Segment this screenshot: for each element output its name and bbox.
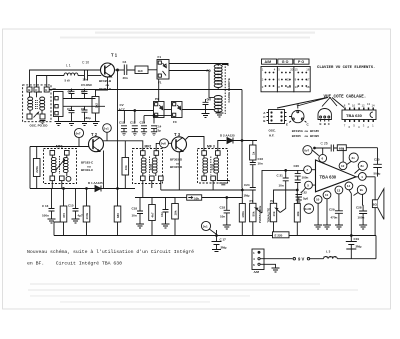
svg-text:C 17: C 17 [220,238,227,242]
svg-text:5 t0: 5 t0 [65,79,71,83]
svg-text:VUE COTE CABLAGE.: VUE COTE CABLAGE. [324,95,367,99]
svg-text:10n: 10n [220,215,225,219]
MF1 tuning arrow [56,159,65,170]
svg-text:C 10: C 10 [82,61,89,65]
MF3 contact B [216,151,221,156]
svg-text:9v: 9v [360,188,364,192]
wire AGC caps rail B [144,116,172,124]
ground [72,219,80,223]
wire D1 AGC bus [30,188,135,190]
svg-text:TONALITE: TONALITE [266,208,270,223]
transistor T2 [89,137,104,152]
svg-text:100n: 100n [42,214,49,218]
transistor T3 [172,137,187,152]
pin 14 [345,182,353,190]
svg-text:18: 18 [306,85,310,89]
MF2 contact B [154,151,159,156]
MF1 contact A [50,151,55,156]
svg-text:C25: C25 [374,158,380,162]
svg-text:2Mμ: 2Mμ [221,246,227,250]
svg-text:2v: 2v [352,156,356,160]
svg-text:50k: 50k [251,211,255,216]
test point 1v1 [103,124,112,133]
IF transformer F1 [157,60,169,80]
svg-text:C29: C29 [329,208,335,212]
wire L1 to C10 [78,75,84,77]
ferrite bead E220 [273,232,290,238]
svg-text:C5: C5 [68,90,72,94]
potentiometer P1 volume [242,189,253,191]
resistor R7 470 [63,189,65,236]
ground [335,225,343,229]
wire 1v1 lead [106,132,108,141]
contact D [40,114,45,119]
loudspeaker HP [374,177,376,236]
capacitor C17 [216,235,218,237]
ground [202,110,210,118]
oscillator coil La [28,97,33,101]
pin 7 [304,166,312,174]
svg-text:ou: ou [305,134,309,138]
capacitor C13b 100n [49,189,55,220]
svg-text:D 1 AA125: D 1 AA125 [88,181,103,185]
svg-text:BF315-D: BF315-D [170,165,183,169]
svg-text:OSC. PO.GO: OSC. PO.GO [30,123,49,127]
wire AGC caps rail A [118,111,154,124]
svg-text:1k: 1k [251,151,255,155]
ground [68,122,76,126]
wire T2 collector [103,141,143,189]
svg-text:180p: 180p [84,116,91,120]
wire switch to ground [260,264,275,268]
test point 2v [349,153,358,162]
resistor R1 emitter [96,77,108,97]
junction [241,140,243,142]
wire F2-F3 [164,109,172,111]
svg-text:100n: 100n [358,216,365,220]
svg-text:C6: C6 [81,90,85,94]
wire bus right corner [375,236,377,259]
ferrite core [224,64,226,115]
test point 0v45 [304,204,314,214]
svg-text:0v45: 0v45 [305,207,312,211]
keyboard pin numbers [262,68,310,89]
test point 3v1 [201,221,210,230]
ground [272,268,280,272]
capacitor C18 [137,198,143,225]
junction [63,188,65,190]
MF3 contact D [211,176,216,181]
keyboard contact block GO [277,67,294,92]
svg-text:A/M: A/M [265,60,272,64]
P2 wiper [276,208,281,212]
wire volume wiper to pin7 [262,170,304,213]
MF2 contact E [159,176,164,181]
svg-text:G0: G0 [207,98,212,102]
svg-text:E: E [320,122,322,126]
package BF185 flat [318,109,331,120]
svg-text:10: 10 [352,104,356,108]
svg-text:C 26: C 26 [321,142,328,146]
resistor R9 680 [117,188,119,190]
wire T3 collector [179,137,204,191]
MF2 contact C [141,176,146,181]
svg-text:16: 16 [306,68,310,72]
svg-text:21: 21 [287,78,291,82]
capacitor C9 [203,99,209,110]
svg-text:C24: C24 [244,183,250,187]
svg-text:F0: F0 [173,120,177,124]
ground [48,219,56,223]
wire keyboard drop to D2 junction [241,90,243,189]
svg-text:D 2 AA125: D 2 AA125 [220,134,235,138]
svg-text:110: 110 [287,85,292,89]
svg-text:40n: 40n [123,76,128,80]
svg-text:4k7: 4k7 [151,212,155,217]
capacitor C12 [132,126,138,136]
ground [162,224,170,228]
svg-text:2Mμ: 2Mμ [356,245,362,249]
svg-text:BF319-C: BF319-C [81,168,94,172]
oscillator coil Lb [40,97,45,101]
wire F3 to GO coil [182,109,214,112]
svg-text:10n: 10n [160,212,164,217]
svg-text:12: 12 [341,164,345,168]
MF2 primary coil [141,158,146,161]
capacitor C19 [350,235,352,237]
pin 1 output [358,173,366,181]
MF2 contact D [150,176,155,181]
MF3 contact A [202,151,207,156]
trimmer C5 [69,89,75,99]
svg-text:100k: 100k [241,211,245,218]
svg-text:C18: C18 [132,207,138,211]
wire MF3 D contact drop [212,181,214,190]
svg-text:12: 12 [362,104,366,108]
pin 11 [323,191,331,199]
package BF195A can [292,110,304,122]
battery 9V terminals [293,258,295,260]
svg-text:L 1: L 1 [66,64,71,68]
svg-text:23p: 23p [156,129,161,133]
MF1 core [59,156,61,174]
svg-text:9 V: 9 V [298,257,304,262]
wire volume feed [161,189,243,191]
keyboard key A/M [262,59,277,64]
capacitor C15 [73,189,79,220]
MF1 contact C [50,176,55,181]
svg-text:E: E [45,88,47,92]
capacitor C14 [151,126,157,136]
wire switch to 9V [260,258,292,260]
svg-text:H.F.: H.F. [269,133,275,137]
svg-text:BF195A: BF195A [292,129,304,133]
contact C [34,87,39,92]
oscillator block U [54,92,64,117]
wire bus y88.5 [47,90,242,93]
capacitor C24 [250,188,256,204]
svg-text:14: 14 [295,85,299,89]
MF3 contact C [202,176,207,181]
wire OSC square to y75 [46,76,48,88]
svg-text:C18: C18 [220,206,226,210]
pin 5 [305,181,313,189]
svg-text:500μ: 500μ [374,172,381,176]
svg-text:C 22: C 22 [301,191,308,195]
svg-text:C20: C20 [294,164,300,168]
switch arrow [34,112,39,117]
svg-text:100n: 100n [302,176,309,180]
junction [86,188,88,190]
wire block pins [59,99,106,122]
resistor R4 220k [36,147,38,189]
svg-text:A/M: A/M [254,270,260,274]
oscillator module dashed box [23,85,51,122]
test point 0v6 [160,139,169,148]
ground [223,225,231,229]
ground [323,225,331,229]
svg-text:10k: 10k [124,165,128,170]
svg-text:T 1: T 1 [111,53,118,58]
junction [117,69,119,71]
svg-text:0S: 0S [53,87,57,91]
pin 12 [342,148,344,162]
diode D2 AA125 [227,138,233,144]
svg-text:MF 3: MF 3 [207,145,215,149]
svg-text:L 3: L 3 [326,250,331,254]
svg-text:11: 11 [358,102,361,106]
pin 10 [314,196,322,204]
svg-text:F1: F1 [158,55,162,59]
svg-text:E: E [286,123,288,127]
svg-text:4μ7: 4μ7 [78,214,84,218]
wire MF1 to D1 bus [52,181,62,189]
wire MF2 to 0v6 [156,143,159,150]
main ground bus [54,235,376,237]
svg-text:C4: C4 [123,60,127,64]
svg-text:220k: 220k [35,166,39,173]
contact B [27,87,32,92]
svg-text:13: 13 [337,188,341,192]
wire T1 collector out [115,69,125,71]
contact E [44,87,49,92]
svg-text:3v1: 3v1 [203,224,208,228]
svg-text:11: 11 [325,193,329,197]
svg-text:P0: P0 [207,69,211,73]
svg-text:10: 10 [316,198,320,202]
svg-text:E 220: E 220 [275,234,283,238]
svg-text:P0: P0 [155,97,159,101]
svg-text:PUISSANCE: PUISSANCE [258,206,262,224]
keyboard contact block A/M [261,67,277,92]
svg-text:1k0: 1k0 [138,69,143,73]
resistor R15 680 [337,145,346,151]
svg-text:100k: 100k [85,212,89,219]
resistor R6 1k [252,141,254,146]
wire AGC vertical lower [117,111,119,189]
package OSC HF [269,110,285,124]
svg-text:C7: C7 [67,107,71,111]
svg-text:BF395: BF395 [310,134,319,138]
wire MF3 top to D2 [218,141,227,151]
resistor R12 10k horizontal [175,197,187,199]
capacitor C11 [121,126,127,136]
ground [55,122,63,126]
test point 8v [358,161,367,170]
capacitor C6 [82,89,88,99]
wire top supply to T1 [30,70,101,87]
transformer MF3 dashed box [198,149,228,184]
svg-text:Nouveau schéma, suite à l'util: Nouveau schéma, suite à l'utilisation d'… [27,249,194,255]
svg-text:470: 470 [62,213,66,218]
svg-text:CV.OSC: CV.OSC [81,83,93,87]
op-amp U1 TBA630 [316,160,357,192]
wire C17 top [216,230,218,236]
P1 wiper [255,208,262,213]
resistor R14 [296,190,298,236]
svg-text:C13: C13 [140,121,146,125]
svg-text:8Ω: 8Ω [373,202,378,206]
capacitor C4 [124,65,135,76]
MF2 core [149,157,151,175]
test point 0v7 [74,128,83,137]
resistor R8 100k [86,189,88,236]
test point 9v [357,185,366,194]
ground [359,225,367,229]
svg-text:680: 680 [116,213,120,218]
capacitor C13 [141,126,147,136]
ground [81,122,89,126]
wire left rail [29,147,31,189]
MF3 core [210,157,212,175]
svg-text:BF305: BF305 [292,134,301,138]
svg-text:C8: C8 [81,107,85,111]
ground [136,224,144,228]
test point 0v7b [303,146,312,155]
MF2 contact A [141,151,146,156]
svg-text:1Mμ: 1Mμ [244,194,250,198]
MF1 contact E [66,176,71,181]
ground bus osc [59,121,96,123]
svg-text:C11: C11 [119,121,125,125]
pin 6 [319,154,327,162]
svg-text:T 2: T 2 [91,132,98,137]
svg-text:8v: 8v [361,164,365,168]
MF3 primary coil [203,158,208,161]
MF1 contact D [60,176,65,181]
svg-text:OSC.: OSC. [269,129,277,133]
transformer MF1 dashed box [44,149,77,184]
svg-text:3035: 3035 [149,163,153,170]
ground [216,113,224,117]
svg-text:P O: P O [298,60,304,64]
svg-text:14: 14 [347,184,351,188]
svg-text:C19: C19 [354,237,360,241]
svg-text:MF1: MF1 [56,145,63,149]
svg-text:0v7: 0v7 [304,149,309,153]
capacitor C10 [85,71,88,81]
svg-text:MF2: MF2 [145,145,152,149]
wire F1 to PO coil [169,64,228,67]
svg-text:en BF. Circuit Intégré TBA: en BF. Circuit Intégré TBA 630 [27,260,122,266]
MF3 secondary coil [214,158,219,161]
resistor R5 10k [124,141,126,189]
svg-text:2k2: 2k2 [94,103,98,108]
wire MF2 down [143,181,161,198]
capacitor C18b [226,197,228,199]
transformer MF2 dashed box [133,149,163,184]
pin 13 [335,186,343,194]
switch A/M [252,249,264,270]
svg-text:BF185: BF185 [310,129,319,133]
svg-text:C28: C28 [356,206,362,210]
svg-text:10n: 10n [258,162,263,166]
svg-text:5μ0: 5μ0 [303,197,309,201]
resistor R2 [135,66,148,74]
keyboard key PO [294,59,309,64]
choke L3 [310,258,324,260]
MF1 primary coil [51,157,56,160]
wire base feed via L1 [37,76,65,88]
svg-text:T 3: T 3 [174,132,181,137]
wire F1 down to F2 [158,79,160,102]
IC package TBA 630 DIP [342,110,376,120]
wire F1 lower to PO coil [169,71,214,98]
resistor R13 [241,188,243,236]
svg-text:18k: 18k [296,211,300,216]
capacitor C8 [82,106,88,121]
wire 0v6 to T3 [169,142,172,144]
svg-text:C12: C12 [130,121,136,125]
MF1 secondary coil [63,157,68,160]
svg-text:10n: 10n [132,214,137,218]
svg-text:1v1: 1v1 [104,126,109,130]
svg-text:TBA 630: TBA 630 [346,113,363,118]
contact A [27,114,32,119]
resistor R11 18k [174,198,176,236]
svg-text:C15: C15 [68,204,74,208]
resistor R10 4k7 [151,198,153,236]
ground [314,225,322,229]
svg-text:C16: C16 [258,157,264,161]
svg-text:3035: 3035 [210,163,214,170]
keyboard contacts [265,72,308,87]
wire [152,197,175,199]
svg-text:CLAVIER VU COTE ELEMENTS.: CLAVIER VU COTE ELEMENTS. [317,66,375,70]
transistor T1 [101,63,115,77]
svg-text:10k: 10k [194,197,199,201]
svg-text:P1: P1 [250,199,254,203]
filter F2 [154,102,165,118]
svg-text:14: 14 [372,104,376,108]
svg-text:ou: ou [305,129,309,133]
wire AGC to T2 [30,146,89,148]
svg-text:470n: 470n [331,216,338,220]
capacitor C26 [314,145,337,152]
wire AGC long vertical [117,70,119,111]
ground [40,121,46,124]
wire MF2 bottom rail [135,197,152,199]
svg-text:13: 13 [367,102,371,106]
capacitor C16 [250,163,256,188]
svg-text:15: 15 [295,68,299,72]
keyboard key GO [278,59,293,64]
inductor L1 [64,73,78,76]
pointer lines [277,98,344,109]
capacitor C19b [163,198,169,225]
svg-text:C 13: C 13 [42,204,49,208]
capacitor C7 [69,106,75,121]
